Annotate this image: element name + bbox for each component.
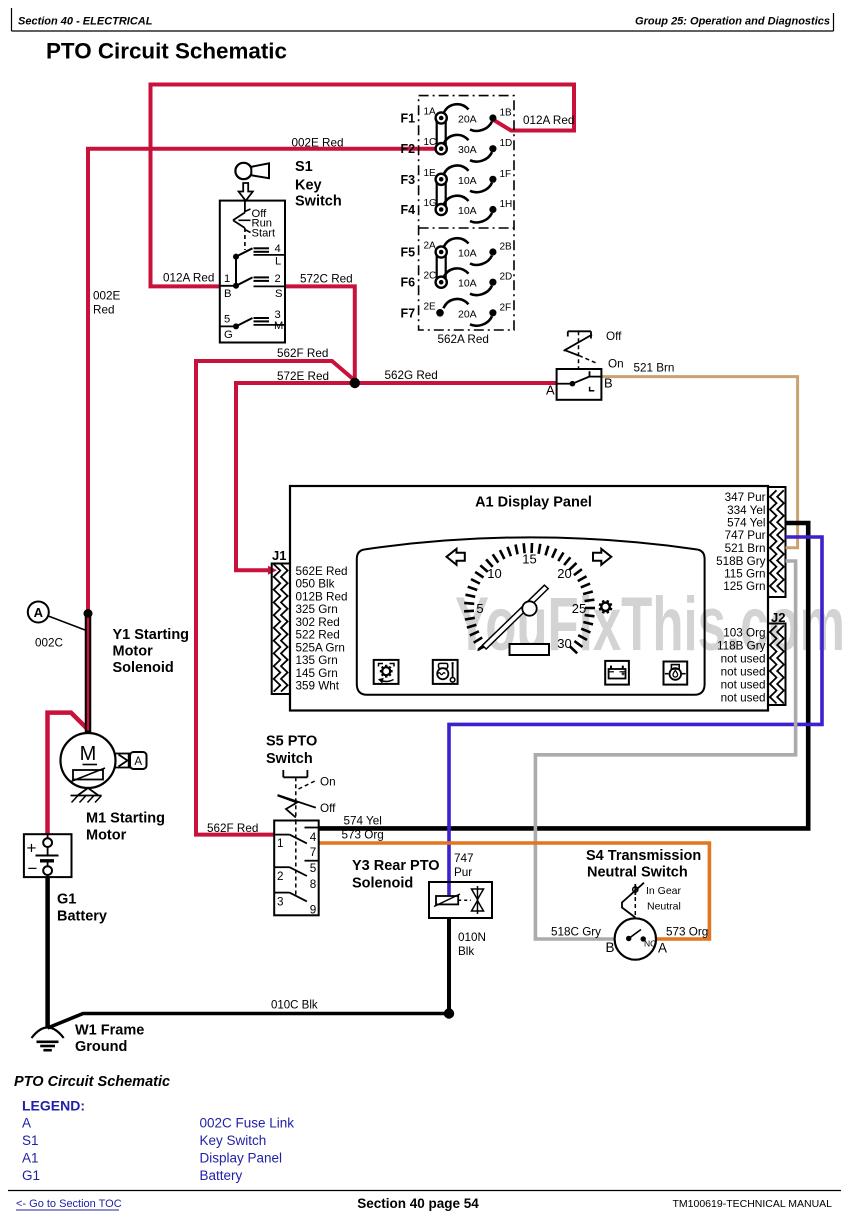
svg-text:1G: 1G — [424, 198, 438, 209]
fuse F6 (10A) — [401, 268, 513, 295]
PTO switch actuator — [564, 331, 598, 369]
panel screen outline — [357, 537, 705, 694]
svg-text:A: A — [658, 941, 667, 956]
S1 link contacts — [235, 257, 237, 286]
svg-text:Switch: Switch — [266, 751, 313, 767]
svg-text:347 Pur: 347 Pur — [725, 491, 766, 504]
svg-text:S4 Transmission: S4 Transmission — [586, 848, 701, 864]
svg-text:1A: 1A — [424, 107, 437, 118]
svg-text:573 Org: 573 Org — [342, 829, 384, 842]
svg-text:Neutral: Neutral — [647, 901, 681, 913]
header rule right tick — [833, 13, 835, 31]
key icon — [235, 163, 269, 179]
svg-text:−: − — [28, 859, 38, 878]
svg-text:050 Blk: 050 Blk — [296, 578, 335, 591]
svg-text:1F: 1F — [500, 169, 512, 180]
svg-text:F4: F4 — [401, 203, 416, 217]
svg-text:Group 25: Operation and Diagno: Group 25: Operation and Diagnostics — [635, 16, 830, 28]
svg-text:Off: Off — [320, 802, 336, 815]
svg-text:F3: F3 — [401, 173, 416, 187]
fuse F2 (30A) — [401, 135, 513, 162]
Y3 coil — [434, 894, 460, 907]
svg-text:5: 5 — [476, 601, 483, 616]
svg-text:2A: 2A — [424, 241, 437, 252]
svg-text:20: 20 — [557, 566, 571, 581]
svg-text:S: S — [275, 288, 282, 300]
connector (display right, 8-pin) box — [768, 487, 786, 597]
svg-text:1E: 1E — [424, 168, 437, 179]
right turn arrow — [593, 549, 611, 565]
connector J2 pins — [770, 626, 784, 704]
svg-text:S1: S1 — [22, 1133, 39, 1148]
battery G1 box — [24, 834, 72, 877]
svg-text:1D: 1D — [500, 138, 513, 149]
svg-text:2D: 2D — [500, 272, 513, 283]
svg-text:7: 7 — [310, 846, 317, 859]
svg-text:not used: not used — [721, 678, 766, 691]
svg-text:30: 30 — [557, 636, 571, 651]
svg-text:M: M — [80, 743, 97, 765]
gauge tick ring — [464, 543, 595, 653]
coolant temperature icon — [433, 660, 458, 684]
M1 solenoid coil — [71, 768, 105, 782]
connector J2 wire labels — [717, 626, 766, 704]
svg-text:A: A — [546, 383, 555, 398]
svg-text:G1: G1 — [22, 1168, 40, 1183]
wire 573 Org (orange) — [319, 843, 710, 939]
connector (display right, 8-pin) pins — [770, 490, 784, 592]
S4 contacts — [626, 930, 646, 942]
svg-text:B: B — [224, 288, 231, 300]
svg-text:S1: S1 — [295, 159, 313, 175]
svg-text:L: L — [275, 256, 281, 268]
wire 562G Red (junction to PTO switch A) — [355, 381, 557, 385]
svg-text:10A: 10A — [458, 278, 477, 290]
svg-text:not used: not used — [721, 665, 766, 678]
wire 010N Blk — [447, 918, 451, 1014]
svg-text:Y1 Starting: Y1 Starting — [113, 627, 190, 643]
S5 pole 3 (pins 3/9) — [274, 893, 307, 902]
svg-text:562E Red: 562E Red — [296, 565, 348, 578]
S1 contact L (pin 4) — [233, 248, 285, 259]
gauge numbers — [476, 552, 586, 652]
svg-text:F5: F5 — [401, 246, 416, 260]
fuse block divider — [419, 227, 514, 229]
S5 PTO switch box — [274, 821, 319, 916]
svg-text:518C Gry: 518C Gry — [551, 926, 601, 939]
fuse bus link F1-F2 — [436, 118, 438, 149]
svg-text:572C Red: 572C Red — [300, 273, 353, 286]
wire 002E Red (F2 1C to fuse link) — [88, 149, 441, 614]
svg-text:562F Red: 562F Red — [207, 822, 258, 835]
key switch S1 box — [220, 201, 285, 343]
svg-text:Solenoid: Solenoid — [113, 660, 174, 676]
fuse bus link F5-F6 — [436, 252, 438, 282]
connector J1 pins — [274, 564, 288, 692]
header rule — [12, 30, 834, 32]
svg-text:+: + — [27, 839, 37, 858]
S5 actuator — [278, 770, 316, 821]
header rule left tick — [11, 8, 13, 31]
svg-text:Blk: Blk — [458, 945, 474, 958]
svg-text:10A: 10A — [458, 248, 477, 260]
svg-text:012A Red: 012A Red — [163, 272, 214, 285]
svg-text:135 Grn: 135 Grn — [296, 654, 338, 667]
svg-text:522 Red: 522 Red — [296, 629, 340, 642]
svg-text:TM100619-TECHNICAL MANUAL: TM100619-TECHNICAL MANUAL — [673, 1198, 833, 1210]
svg-text:334 Yel: 334 Yel — [727, 504, 765, 517]
fuse F5 (10A) — [401, 238, 513, 265]
svg-text:562A Red: 562A Red — [438, 333, 489, 346]
connector right wire labels — [716, 491, 766, 593]
svg-text:002E Red: 002E Red — [292, 137, 344, 150]
svg-text:not used: not used — [721, 691, 766, 704]
wire 012A Red (F1 1B to key switch pin B) — [151, 85, 575, 287]
solenoid Y3 box — [429, 882, 492, 918]
PTO switch contacts — [557, 371, 602, 391]
svg-text:W1 Frame: W1 Frame — [75, 1023, 144, 1039]
svg-text:A1: A1 — [22, 1151, 39, 1166]
S5 pole 2 (pins 2/5/8) — [274, 861, 319, 876]
svg-text:In Gear: In Gear — [646, 885, 682, 897]
svg-text:Battery: Battery — [200, 1168, 243, 1183]
svg-text:F7: F7 — [401, 306, 416, 320]
key arrow — [239, 183, 253, 201]
wire 572E Red (junction to J1 connector) — [236, 383, 355, 570]
svg-text:25: 25 — [572, 601, 586, 616]
fuse F4 (10A) — [401, 196, 513, 223]
svg-text:G1: G1 — [57, 892, 76, 908]
svg-text:2B: 2B — [500, 242, 513, 253]
svg-text:A1 Display Panel: A1 Display Panel — [475, 495, 592, 511]
svg-text:Pur: Pur — [454, 866, 472, 879]
oil pressure icon — [664, 662, 688, 685]
svg-text:M: M — [274, 320, 283, 332]
svg-text:3: 3 — [277, 896, 284, 909]
key switch selector — [233, 209, 251, 250]
svg-text:On: On — [320, 776, 336, 789]
wire 521 Brn — [601, 377, 797, 548]
svg-text:PTO Circuit Schematic: PTO Circuit Schematic — [46, 39, 287, 64]
svg-text:Y3 Rear PTO: Y3 Rear PTO — [352, 858, 440, 874]
svg-text:1H: 1H — [500, 199, 513, 210]
svg-text:574 Yel: 574 Yel — [344, 815, 382, 828]
svg-text:Section 40 - ELECTRICAL: Section 40 - ELECTRICAL — [18, 16, 153, 28]
svg-text:125 Grn: 125 Grn — [723, 580, 765, 593]
connector J2 box — [768, 624, 786, 706]
svg-text:Key Switch: Key Switch — [200, 1133, 267, 1148]
svg-text:20A: 20A — [458, 308, 477, 320]
gear indicator icon — [599, 600, 612, 613]
svg-text:Ground: Ground — [75, 1039, 127, 1055]
PTO switch (A/B) box — [557, 369, 602, 400]
svg-text:1: 1 — [277, 837, 284, 850]
footer link — [16, 1198, 122, 1210]
svg-text:5: 5 — [224, 314, 230, 326]
svg-text:Switch: Switch — [295, 194, 342, 210]
S4 switch circle — [615, 918, 656, 959]
svg-text:F6: F6 — [401, 276, 416, 290]
svg-text:1: 1 — [224, 273, 230, 285]
svg-text:2: 2 — [277, 870, 284, 883]
fuse bus link F3-F4 — [436, 179, 438, 209]
wire 518B/518C Gry (gray) — [535, 561, 795, 939]
starting motor M1 circle — [61, 733, 116, 788]
svg-text:Off: Off — [606, 330, 622, 343]
svg-text:not used: not used — [721, 652, 766, 665]
svg-text:Motor: Motor — [113, 644, 154, 660]
wire battery negative cable — [45, 877, 50, 1028]
svg-text:<- Go to Section TOC: <- Go to Section TOC — [16, 1198, 122, 1210]
M1 case ground — [71, 788, 102, 803]
PTO indicator icon — [374, 660, 399, 684]
wire battery positive cable (red) — [48, 713, 88, 835]
svg-text:10A: 10A — [458, 175, 477, 187]
S1 contact M (pin 3) — [220, 318, 285, 329]
gauge needle — [478, 585, 549, 650]
svg-text:J1: J1 — [272, 548, 286, 563]
svg-text:012A Red: 012A Red — [523, 114, 574, 127]
wire 010C Blk (ground bus) — [48, 1014, 449, 1029]
connector J1 wire labels — [296, 565, 348, 693]
svg-text:4: 4 — [310, 831, 317, 844]
svg-text:S5 PTO: S5 PTO — [266, 734, 317, 750]
svg-text:562G Red: 562G Red — [385, 369, 438, 382]
svg-text:20A: 20A — [458, 114, 477, 126]
svg-text:Battery: Battery — [57, 909, 107, 925]
wire 562F Red (junction to S5 PTO switch pin 1) — [196, 361, 355, 835]
wire 574 Yel (black) — [319, 523, 809, 828]
svg-text:8: 8 — [310, 878, 317, 891]
svg-text:Red: Red — [93, 304, 114, 317]
svg-text:574 Yel: 574 Yel — [727, 517, 765, 530]
M1 connector to A — [116, 752, 147, 769]
svg-text:1B: 1B — [500, 108, 513, 119]
svg-text:562F Red: 562F Red — [277, 347, 328, 360]
svg-text:NO: NO — [644, 939, 657, 949]
svg-text:002C: 002C — [35, 637, 63, 650]
footer rule — [8, 1190, 841, 1192]
svg-text:002C Fuse Link: 002C Fuse Link — [200, 1116, 295, 1131]
svg-text:Section 40 page 54: Section 40 page 54 — [357, 1196, 479, 1211]
svg-text:On: On — [608, 358, 624, 371]
svg-text:Motor: Motor — [86, 828, 127, 844]
S5 mechanical link (dashed) — [295, 821, 297, 898]
fuse block border (dash-dot) — [419, 96, 514, 330]
svg-text:Key: Key — [295, 178, 322, 194]
svg-text:572E Red: 572E Red — [277, 370, 329, 383]
svg-text:4: 4 — [275, 243, 281, 255]
display panel A1 box — [290, 486, 768, 711]
svg-text:A: A — [134, 756, 142, 768]
svg-text:010C Blk: 010C Blk — [271, 1000, 318, 1012]
svg-text:9: 9 — [310, 904, 317, 917]
connector J1 box — [272, 564, 290, 695]
svg-text:010N: 010N — [458, 931, 486, 944]
svg-text:15: 15 — [522, 552, 536, 567]
key switch shaft — [244, 201, 246, 213]
fuse link 002C (red core) — [87, 618, 89, 731]
fuse F1 (20A) — [401, 104, 513, 131]
svg-text:573 Org: 573 Org — [666, 926, 708, 939]
svg-text:10: 10 — [487, 566, 501, 581]
svg-text:525A Grn: 525A Grn — [296, 641, 345, 654]
fuse F7 (20A) — [401, 299, 512, 326]
svg-text:2F: 2F — [500, 302, 512, 313]
svg-text:30A: 30A — [458, 144, 477, 156]
svg-text:115 Grn: 115 Grn — [724, 568, 765, 581]
svg-text:Start: Start — [252, 228, 277, 240]
svg-text:518B Gry: 518B Gry — [716, 555, 766, 568]
svg-text:Display Panel: Display Panel — [200, 1151, 283, 1166]
battery indicator icon — [605, 661, 629, 685]
arrowhead 562E Red into J1 — [268, 566, 277, 575]
svg-text:F2: F2 — [401, 142, 416, 156]
svg-text:2C: 2C — [424, 271, 437, 282]
svg-text:2E: 2E — [424, 301, 437, 312]
svg-text:2: 2 — [275, 273, 281, 285]
svg-text:M1 Starting: M1 Starting — [86, 811, 165, 827]
svg-text:521 Brn: 521 Brn — [634, 362, 675, 375]
svg-text:10A: 10A — [458, 205, 477, 217]
wire 747 Pur (blue) — [449, 537, 822, 896]
Y3 suppression diode — [472, 886, 484, 914]
svg-text:Solenoid: Solenoid — [352, 876, 413, 892]
svg-text:B: B — [604, 376, 613, 391]
svg-text:012B Red: 012B Red — [296, 590, 348, 603]
svg-text:A: A — [22, 1116, 31, 1131]
svg-text:F1: F1 — [401, 112, 416, 126]
S4 lever — [622, 883, 644, 919]
svg-text:LEGEND:: LEGEND: — [22, 1098, 85, 1114]
svg-text:Neutral Switch: Neutral Switch — [587, 865, 688, 881]
svg-text:359 Wht: 359 Wht — [296, 680, 340, 693]
svg-text:103 Org: 103 Org — [723, 626, 765, 639]
svg-text:B: B — [606, 940, 615, 955]
frame ground W1 symbol — [32, 1028, 64, 1051]
S1 contact S (pin 2) — [220, 277, 285, 288]
svg-text:747: 747 — [454, 852, 474, 865]
fuse link callout A — [28, 602, 85, 631]
svg-text:A: A — [34, 605, 44, 620]
odometer window — [510, 644, 550, 655]
svg-text:521 Brn: 521 Brn — [725, 542, 766, 555]
node junction 002E/link — [84, 609, 93, 618]
svg-text:325 Grn: 325 Grn — [296, 603, 338, 616]
svg-text:5: 5 — [310, 862, 317, 875]
svg-text:118B Gry: 118B Gry — [717, 639, 766, 652]
battery symbol — [36, 834, 59, 877]
Y3 link dashes — [458, 899, 471, 901]
S5 pole 1 (pins 1/4/7) — [274, 828, 319, 844]
svg-text:302 Red: 302 Red — [296, 616, 340, 629]
wire 572C Red (key switch S to junction) — [285, 286, 355, 383]
svg-text:002E: 002E — [93, 290, 121, 303]
svg-text:145 Grn: 145 Grn — [296, 667, 338, 680]
junction node (572C/572E/562F/562G) — [350, 378, 360, 388]
junction node 010N/010C — [444, 1008, 454, 1018]
left turn arrow — [447, 549, 465, 565]
fuse F3 (10A) — [401, 165, 512, 192]
svg-text:PTO Circuit Schematic: PTO Circuit Schematic — [14, 1074, 170, 1090]
M1 underline — [83, 764, 98, 766]
svg-text:1C: 1C — [424, 137, 437, 148]
svg-text:747 Pur: 747 Pur — [725, 529, 766, 542]
fuse link 002C (black sheath) — [85, 614, 92, 734]
svg-text:G: G — [224, 329, 233, 341]
